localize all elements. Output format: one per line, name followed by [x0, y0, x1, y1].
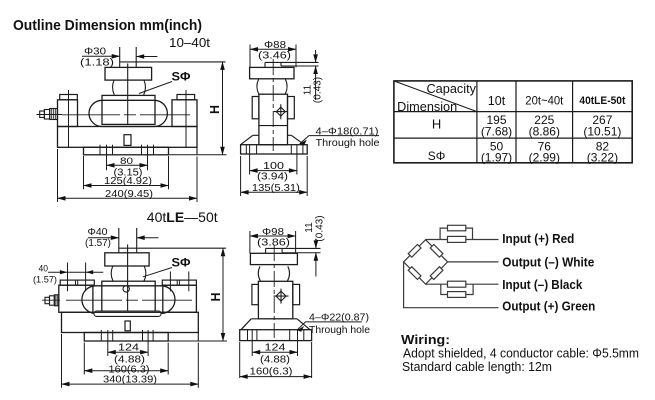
table outer border: [394, 81, 632, 163]
svg-text:Adopt shielded, 4 conductor ca: Adopt shielded, 4 conductor cable: Φ5.5m…: [403, 347, 639, 361]
bridge resistor R3 bottom-left: [408, 267, 421, 280]
dim240 extension lines: [58, 149, 198, 202]
load button cap: [105, 67, 152, 80]
vertical centerline: [272, 59, 274, 151]
svg-text:Input (–) Black: Input (–) Black: [502, 278, 582, 292]
body column: [259, 94, 288, 145]
svg-text:135(5.31): 135(5.31): [252, 182, 300, 194]
button right edge: [281, 248, 283, 252]
left bolt lines: [68, 263, 86, 292]
label 4-phi22: [309, 312, 370, 337]
svg-text:(3.46): (3.46): [258, 51, 291, 62]
foot ticks: [100, 145, 154, 155]
capsule centerline: [66, 299, 192, 301]
cap: [250, 67, 294, 78]
dimension phi30 text: [80, 47, 114, 69]
button left edge: [265, 248, 267, 253]
cap: [250, 253, 297, 264]
wheatstone bridge diamond: [404, 240, 448, 285]
saddle strip: [94, 311, 161, 316]
cap: [105, 253, 149, 266]
phi88 extension lines: [250, 45, 296, 68]
svg-text:SΦ: SΦ: [172, 70, 191, 84]
left end plate: [59, 285, 93, 312]
dim340 line: [62, 383, 199, 385]
dim11 text: [303, 77, 324, 103]
H dimension line: [222, 248, 224, 341]
foot ticks: [248, 330, 304, 341]
svg-text:100: 100: [263, 161, 285, 172]
svg-text:(3.86): (3.86): [257, 238, 290, 249]
dim phi88 line: [250, 48, 296, 50]
svg-text:Φ40: Φ40: [88, 227, 108, 238]
svg-text:(2.99): (2.99): [529, 150, 560, 164]
svg-text:(0.43): (0.43): [315, 215, 326, 241]
trapezoid right slant: [291, 135, 304, 144]
capsule centerline: [62, 114, 190, 116]
svg-text:Through hole: Through hole: [309, 324, 370, 336]
cable gland tip: [40, 111, 45, 118]
svg-text:SΦ: SΦ: [172, 256, 191, 270]
right end plate tab: [177, 95, 195, 100]
dim160 line: [240, 376, 312, 378]
header diagonal: [394, 81, 477, 112]
wire input- left: [426, 283, 448, 285]
wire input+ left: [426, 239, 448, 241]
leader 4-phi18: [300, 136, 379, 144]
dim40 text: [33, 263, 57, 285]
foot ticks: [246, 145, 303, 154]
dim240 line: [58, 197, 198, 199]
ball right arc: [285, 79, 287, 94]
dim125 line: [84, 185, 169, 187]
base right edge lower: [196, 147, 198, 155]
foot plate: [84, 147, 169, 155]
dim11 extension handled above; dim11 vertical line top: [315, 50, 317, 62]
centerline vertical: [127, 245, 129, 313]
svg-text:10t: 10t: [488, 94, 506, 108]
left end plate tab: [60, 95, 78, 100]
ball right arc: [287, 266, 289, 281]
cable gland threaded: [50, 109, 58, 120]
cable gland hatch: [52, 109, 56, 120]
label 4-phi18: [316, 125, 380, 149]
phi98 extension lines: [250, 231, 296, 253]
left bolt centerline: [68, 90, 70, 147]
body column: [258, 281, 292, 319]
cable gland axis: [37, 114, 63, 116]
svg-text:240(9.45): 240(9.45): [105, 188, 153, 200]
block hole circle: [123, 286, 129, 292]
S-phi leader: [139, 82, 172, 94]
wire input- right: [466, 283, 499, 285]
right side tab: [288, 97, 295, 119]
dim135 extension lines: [241, 156, 308, 196]
svg-text:H: H: [432, 117, 441, 132]
bridge resistor R1 top-left: [408, 244, 421, 257]
dim11 text: [304, 215, 326, 241]
dim160 extension lines: [84, 343, 168, 375]
H bottom extension: [169, 154, 227, 156]
dim124 text: [114, 343, 145, 366]
table column lines: [477, 81, 573, 163]
cap top extension line: [281, 65, 319, 67]
cable gland tip: [45, 297, 50, 303]
svg-text:40tLE—50t: 40tLE—50t: [147, 209, 218, 225]
center block: [102, 281, 155, 312]
ball left arc: [113, 80, 115, 95]
dim135 line: [241, 191, 308, 193]
svg-text:11: 11: [304, 222, 315, 233]
dim80 text: [114, 156, 143, 179]
trim resistor Rt1 upper: [448, 225, 466, 231]
anchor pin: [125, 321, 130, 331]
svg-text:H: H: [209, 292, 223, 301]
trim resistor Rt3 in line: [448, 281, 466, 287]
dim340 extension lines: [62, 334, 199, 388]
trapezoid left slant: [241, 135, 253, 144]
right side tab: [293, 284, 300, 304]
svg-text:(7.68): (7.68): [481, 124, 512, 138]
ball left arc: [111, 266, 113, 281]
svg-text:Input (+) Red: Input (+) Red: [502, 232, 574, 246]
svg-text:10–40t: 10–40t: [169, 36, 211, 50]
svg-text:Wiring:: Wiring:: [401, 332, 450, 347]
dim100 line: [250, 170, 297, 172]
phi40 extension lines: [119, 228, 137, 253]
H bottom extension: [168, 340, 227, 342]
bridge resistor R2 top-right: [430, 244, 443, 257]
dim160 line: [84, 370, 168, 372]
trapezoid shoulders: [251, 318, 297, 320]
center mark diamond: [276, 291, 286, 301]
wire input+ right: [466, 239, 499, 241]
center mark diamond: [276, 107, 285, 116]
svg-text:80: 80: [120, 156, 133, 167]
leader arrowhead: [297, 326, 304, 332]
dimension phi30 lines: [82, 55, 120, 57]
right bolt centerline: [185, 90, 187, 147]
ball right arc: [144, 80, 146, 95]
H dimension line: [222, 62, 224, 155]
center mark cross: [274, 104, 288, 119]
left end plate: [58, 100, 78, 127]
left side tab: [252, 284, 259, 304]
base plate: [58, 127, 198, 148]
svg-text:Output (+) Green: Output (+) Green: [502, 300, 595, 314]
dim phi88 text: [258, 40, 291, 62]
ball left arc: [258, 266, 260, 281]
capsule body: [89, 100, 167, 126]
svg-text:(1.57): (1.57): [85, 238, 111, 249]
dim phi40 lines: [88, 237, 119, 239]
svg-text:(0.43): (0.43): [313, 77, 324, 103]
button top line: [266, 247, 321, 249]
dim124 extension lines: [252, 330, 297, 356]
dim phi40 text: [85, 227, 111, 249]
dim124 line: [252, 351, 297, 353]
dim80 extension lines: [107, 145, 148, 171]
dim124 line: [108, 351, 148, 353]
base right edge lower: [197, 333, 199, 342]
capsule body: [82, 286, 175, 314]
button top line / H extension: [120, 61, 226, 63]
leader 4-phi22: [297, 322, 362, 330]
extension lines button: [119, 47, 121, 67]
trim resistor Rt2 in line: [448, 236, 466, 242]
right tab divisions: [177, 280, 179, 285]
cable gland threaded: [54, 295, 59, 306]
dim160 extension lines: [240, 342, 312, 378]
svg-text:124: 124: [118, 343, 140, 354]
right end plate: [163, 285, 197, 312]
svg-text:H: H: [208, 105, 222, 114]
right bolt lines: [170, 272, 188, 292]
svg-text:(8.86): (8.86): [529, 124, 560, 138]
trapezoid right slant: [297, 319, 310, 330]
dim124 text: [260, 343, 290, 366]
left tab divisions: [76, 280, 78, 285]
dim125 extension lines: [84, 156, 169, 189]
svg-text:160(6.3): 160(6.3): [250, 365, 293, 377]
cable gland mid: [44, 110, 49, 120]
svg-text:124: 124: [265, 343, 287, 354]
vertical centerline: [273, 245, 275, 338]
body waist line: [259, 125, 288, 127]
leader arrowhead: [300, 140, 307, 146]
foot plate: [84, 333, 168, 342]
foot ticks: [101, 330, 153, 341]
trapezoid left slant: [241, 319, 251, 330]
left mount tab hatched: [60, 280, 94, 285]
right end plate: [172, 100, 197, 127]
svg-text:(3.22): (3.22): [587, 150, 618, 164]
cable gland axis: [42, 299, 60, 301]
cap top extension line: [282, 252, 320, 254]
svg-text:Dimension: Dimension: [397, 100, 457, 114]
ball left arc: [257, 79, 259, 94]
dim11 vertical line bottom: [315, 66, 317, 100]
svg-text:20t~40t: 20t~40t: [525, 96, 564, 108]
S-phi leader: [143, 268, 172, 277]
dim40 arrows: [60, 270, 93, 274]
trapezoid shoulders: [253, 134, 291, 136]
dim11 vertical line bottom: [315, 253, 317, 277]
svg-text:(1.97): (1.97): [481, 150, 512, 164]
wire output-: [448, 261, 499, 263]
button left edge: [264, 62, 266, 67]
svg-text:125(4.92): 125(4.92): [104, 175, 152, 187]
cable gland mid: [50, 296, 55, 305]
dim phi98 text: [257, 227, 290, 249]
dim phi98 line: [250, 235, 296, 237]
ball right arc: [144, 266, 146, 281]
button top line: [265, 61, 319, 63]
wire output+: [404, 262, 499, 308]
dim40 line: [48, 271, 103, 273]
svg-text:Standard cable length: 12m: Standard cable length: 12m: [402, 360, 552, 374]
svg-text:SΦ: SΦ: [428, 149, 446, 163]
button top line / H extension: [119, 247, 226, 249]
svg-text:(1.57): (1.57): [33, 275, 57, 286]
svg-text:(10.51): (10.51): [583, 124, 621, 138]
anchor pin: [124, 135, 131, 146]
dim100 extension lines: [250, 145, 297, 175]
svg-text:Outline Dimension mm(inch): Outline Dimension mm(inch): [13, 17, 202, 34]
trim loop top: [440, 228, 472, 239]
centerline vertical: [127, 64, 129, 125]
trim loop bottom: [441, 284, 473, 294]
svg-text:(4.88): (4.88): [260, 354, 290, 365]
button right edge: [280, 62, 282, 66]
svg-text:40tLE-50t: 40tLE-50t: [579, 95, 625, 107]
svg-text:Capacity: Capacity: [427, 82, 477, 96]
bridge resistor R4 bottom-right: [430, 267, 443, 280]
table row lines: [394, 112, 632, 139]
dim100 text: [257, 161, 288, 183]
svg-text:Through hole: Through hole: [316, 137, 380, 149]
svg-text:340(13.39): 340(13.39): [103, 374, 157, 386]
dim124 extension lines: [108, 330, 148, 356]
svg-text:40: 40: [39, 263, 49, 274]
foot plate: [240, 330, 312, 341]
trim resistor Rt4 lower: [448, 292, 466, 298]
foot plate: [241, 145, 308, 154]
base plate: [62, 312, 199, 332]
dim11 vertical line top: [315, 240, 317, 249]
right mount tab hatched: [162, 280, 196, 285]
svg-text:Output (–) White: Output (–) White: [502, 255, 594, 269]
left side tab: [252, 97, 259, 119]
dim80 line: [107, 164, 148, 166]
cable gland hatch: [56, 295, 58, 306]
center mark cross: [274, 289, 289, 304]
center block: [102, 95, 155, 124]
